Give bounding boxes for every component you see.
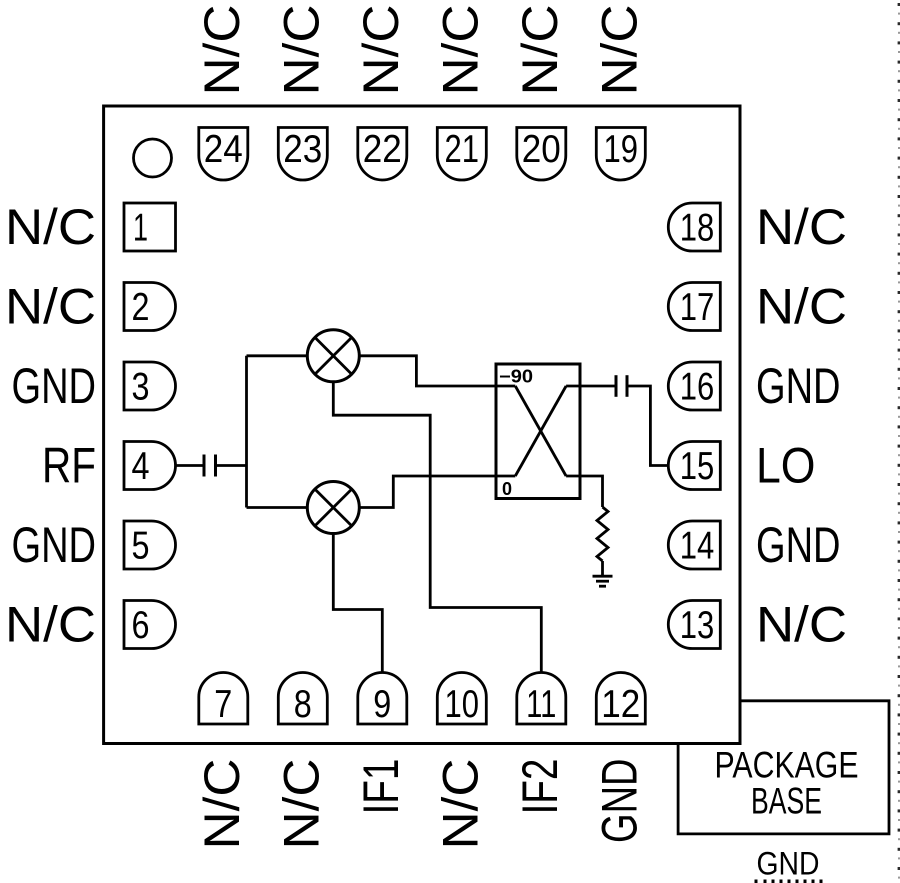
resistor R1 (termination)	[597, 507, 608, 561]
svg-text:N/C: N/C	[5, 199, 96, 255]
pin 3 pad	[124, 362, 176, 410]
svg-text:N/C: N/C	[756, 199, 847, 255]
pin 6 pad	[124, 601, 176, 649]
svg-text:N/C: N/C	[591, 5, 647, 96]
svg-text:LO: LO	[756, 438, 816, 494]
svg-text:N/C: N/C	[5, 597, 96, 653]
svg-text:N/C: N/C	[194, 5, 250, 96]
svg-text:8: 8	[294, 683, 312, 726]
svg-text:GND: GND	[591, 759, 647, 844]
svg-text:N/C: N/C	[756, 279, 847, 335]
svg-text:BASE: BASE	[751, 781, 822, 822]
svg-text:7: 7	[214, 683, 232, 726]
svg-text:13: 13	[680, 604, 715, 647]
svg-text:GND: GND	[756, 358, 841, 414]
svg-text:IF2: IF2	[512, 759, 568, 815]
package base box	[678, 701, 889, 834]
svg-text:11: 11	[526, 683, 556, 726]
svg-text:4: 4	[132, 445, 150, 488]
wire splitter vertical	[245, 356, 248, 508]
ground symbol (termination)	[593, 576, 613, 586]
page border dash-dot line (clipped at right edge)	[898, 3, 900, 870]
pin 24 pad	[199, 128, 248, 181]
hybrid coupler box	[496, 364, 580, 499]
svg-text:16: 16	[680, 365, 715, 408]
pin 18 pad	[668, 203, 720, 251]
pin 11 pad	[517, 673, 566, 725]
pin 7 pad	[199, 673, 248, 725]
svg-text:21: 21	[445, 128, 480, 171]
svg-text:22: 22	[363, 128, 402, 171]
wire mixer M2 to hybrid 0 port	[359, 476, 515, 508]
svg-text:N/C: N/C	[273, 759, 329, 850]
svg-text:GND: GND	[12, 517, 97, 573]
svg-text:2: 2	[132, 286, 150, 329]
wire splitter to mixer M2	[247, 506, 308, 509]
svg-text:9: 9	[373, 683, 391, 726]
pin 23 pad	[278, 128, 327, 181]
pin 19 pad	[596, 128, 645, 181]
pin 22 pad	[358, 128, 407, 180]
wire resistor R1 to ground	[601, 561, 604, 576]
svg-text:N/C: N/C	[432, 759, 488, 850]
svg-text:20: 20	[522, 128, 561, 171]
svg-text:GND: GND	[756, 517, 841, 573]
pin 16 pad	[668, 362, 720, 410]
wire splitter to mixer M1	[247, 354, 308, 357]
mixer M1 circle	[307, 330, 359, 382]
pin 1 orientation circle	[134, 139, 172, 177]
pin 20 pad	[517, 128, 566, 181]
svg-text:GND: GND	[757, 846, 820, 882]
capacitor C1 (RF blocking)	[204, 455, 216, 477]
svg-text:12: 12	[601, 683, 640, 726]
svg-text:0: 0	[502, 479, 512, 499]
svg-text:N/C: N/C	[353, 5, 409, 96]
pin 2 pad	[124, 283, 176, 331]
svg-text:PACKAGE: PACKAGE	[715, 745, 859, 786]
svg-text:17: 17	[680, 286, 715, 329]
pin 15 pad	[668, 442, 720, 490]
wire mixer M1 to hybrid -90 port	[359, 356, 515, 386]
svg-text:N/C: N/C	[512, 5, 568, 96]
hybrid X diagonal 2	[515, 386, 566, 476]
svg-text:5: 5	[132, 524, 150, 567]
svg-text:−90: −90	[499, 367, 533, 387]
wire mixer M1 IF output to pin 11 (IF2)	[333, 382, 541, 673]
svg-text:15: 15	[680, 445, 715, 488]
pin 17 pad	[668, 283, 720, 331]
mixer M2 X	[315, 489, 352, 526]
pin 14 pad	[668, 521, 720, 569]
svg-text:1: 1	[133, 206, 148, 249]
svg-text:3: 3	[132, 365, 150, 408]
svg-text:6: 6	[132, 604, 150, 647]
svg-text:N/C: N/C	[5, 279, 96, 335]
hybrid X diagonal 1	[515, 386, 566, 476]
wire hybrid bottom output to resistor R1	[566, 476, 602, 507]
svg-text:IF1: IF1	[353, 759, 409, 815]
package outline	[104, 106, 740, 744]
pin 5 pad	[124, 521, 176, 569]
svg-text:10: 10	[445, 683, 480, 726]
svg-text:GND: GND	[12, 358, 97, 414]
wire mixer M2 IF output to pin 9 (IF1)	[333, 534, 382, 674]
pin 1 pad	[124, 203, 176, 251]
svg-text:N/C: N/C	[194, 759, 250, 850]
pin 9 pad	[358, 673, 407, 724]
pin 4 pad	[124, 442, 176, 490]
svg-text:23: 23	[283, 128, 322, 171]
capacitor C2 (LO blocking)	[616, 375, 627, 397]
pin 13 pad	[668, 601, 720, 649]
wire capacitor C2 to pin 15 (LO)	[627, 386, 669, 466]
svg-text:N/C: N/C	[432, 5, 488, 96]
svg-text:18: 18	[680, 206, 715, 249]
pin 21 pad	[437, 128, 486, 181]
wire capacitor C1 to splitter node	[216, 464, 247, 467]
wire pin4 to capacitor C1	[176, 464, 205, 467]
mixer M2 circle	[307, 482, 359, 534]
pin 12 pad	[596, 673, 645, 725]
svg-text:N/C: N/C	[756, 597, 847, 653]
svg-text:14: 14	[680, 524, 715, 567]
ground hatch under GND (clipped at page bottom)	[756, 880, 821, 883]
svg-text:N/C: N/C	[273, 5, 329, 96]
pin 10 pad	[437, 673, 486, 725]
svg-text:24: 24	[204, 128, 243, 171]
pin 8 pad	[278, 673, 327, 725]
page border faint dots (clipped at right edge)	[898, 13, 900, 879]
svg-text:RF: RF	[42, 438, 96, 494]
svg-text:19: 19	[604, 128, 639, 171]
mixer M1 X	[315, 337, 352, 374]
wire hybrid top output to capacitor C2	[566, 385, 616, 388]
